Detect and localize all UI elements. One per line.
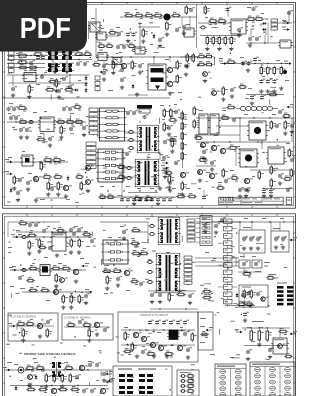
resistor R714 bbox=[69, 373, 75, 383]
capacitor C126 bbox=[36, 55, 42, 60]
wire net IC201 input bbox=[198, 22, 231, 24]
resistor R618 bbox=[112, 268, 122, 273]
ground bbox=[56, 192, 60, 196]
capacitor C309 bbox=[132, 110, 138, 115]
wire net right edge drop bbox=[291, 118, 293, 142]
capacitor C110 bbox=[29, 60, 35, 65]
resistor R711 bbox=[45, 373, 51, 383]
capacitor C308 bbox=[126, 110, 132, 115]
resistor R212 bbox=[260, 66, 266, 76]
transistor Q601 bbox=[73, 269, 82, 274]
transformer T102 flyback bbox=[135, 159, 160, 187]
wire section divider vertical bbox=[196, 4, 198, 48]
resistor R411 bbox=[187, 193, 197, 198]
wire p2 net C bbox=[22, 291, 90, 293]
resistor R617 bbox=[102, 268, 112, 273]
ground bbox=[257, 342, 261, 346]
title block field text bbox=[220, 198, 280, 203]
wire U702 feed bbox=[279, 328, 281, 338]
connector J601 bbox=[187, 219, 195, 243]
capacitor C315 bbox=[16, 190, 22, 195]
resistor R311 bbox=[47, 181, 53, 191]
inductor L607 bbox=[146, 280, 153, 283]
capacitor C707 bbox=[90, 388, 96, 393]
ground bbox=[150, 300, 154, 304]
connector J103 bbox=[95, 76, 100, 92]
transistor Q302 bbox=[63, 185, 72, 190]
net label AC2 bbox=[105, 379, 113, 383]
resistor R402 bbox=[181, 121, 187, 131]
resistor R422b bbox=[170, 108, 176, 118]
inductor L201 bbox=[199, 26, 206, 29]
page 2 border frame inner bbox=[5, 216, 294, 396]
transistor Q707 bbox=[141, 336, 150, 341]
IC U301 audio amp bbox=[38, 117, 56, 132]
resistor R730 bbox=[187, 373, 195, 380]
capacitor C205 bbox=[241, 61, 247, 66]
ground bbox=[283, 131, 287, 135]
wire module A out bbox=[243, 253, 245, 258]
IC U702 bbox=[271, 338, 289, 354]
resistor R420 bbox=[222, 168, 228, 178]
resistor R207 bbox=[212, 36, 218, 46]
resistor R710 bbox=[64, 365, 74, 370]
resistor R405 bbox=[181, 151, 187, 161]
resistor R601 bbox=[27, 232, 37, 237]
resistor R720 bbox=[131, 342, 137, 352]
page 1 border frame outer bbox=[3, 2, 296, 208]
resistor R717 bbox=[58, 386, 68, 391]
capacitor C405 bbox=[275, 123, 281, 128]
capacitor C622 bbox=[34, 222, 40, 227]
ground bbox=[37, 249, 41, 253]
resistor R107 bbox=[108, 29, 117, 34]
page 1 border frame inner bbox=[5, 4, 294, 205]
ground bbox=[248, 303, 252, 307]
ground bbox=[242, 300, 246, 304]
resistor R317 bbox=[80, 181, 86, 191]
net label HT bbox=[289, 331, 297, 335]
ground bbox=[217, 47, 221, 51]
ground bbox=[167, 185, 171, 189]
ground bbox=[278, 181, 282, 185]
ground bbox=[158, 186, 162, 190]
transistor Q303 bbox=[86, 166, 94, 171]
transistor Q202 dark dot bbox=[283, 70, 287, 74]
resistor R622 bbox=[176, 291, 186, 296]
resistor R421 bbox=[258, 170, 264, 180]
ground bbox=[221, 97, 225, 101]
capacitor C418 bbox=[238, 187, 244, 192]
resistor R738 bbox=[200, 331, 209, 338]
ground bbox=[256, 246, 260, 250]
ground bbox=[135, 92, 139, 96]
wire T602 to module A1 bbox=[195, 257, 239, 259]
title block frame bbox=[219, 197, 283, 204]
module box STAND-BY frame bbox=[118, 312, 198, 362]
ground bbox=[269, 194, 273, 198]
ground bbox=[105, 286, 109, 290]
diode D302 bbox=[10, 188, 13, 193]
capacitor C601 bbox=[42, 228, 48, 233]
resistor R418 bbox=[288, 148, 294, 158]
ground bbox=[82, 133, 86, 137]
connector J603 block bbox=[196, 216, 212, 246]
capacitor C703 bbox=[103, 327, 109, 332]
wire primary bus bbox=[96, 56, 196, 58]
IC U401 bbox=[197, 114, 210, 134]
wire net T101 to T102 bbox=[159, 152, 161, 161]
capacitor C613 bbox=[242, 236, 248, 242]
resistor R436 bbox=[193, 119, 199, 129]
resistor R716 bbox=[38, 386, 48, 393]
inductor L603 bbox=[148, 224, 155, 227]
table PLASTIC SIDE pinout frame bbox=[250, 362, 295, 396]
transistor Q602 bbox=[53, 289, 62, 294]
transistor Q702 bbox=[94, 322, 103, 327]
table AUDIO pinout pin ovals bbox=[220, 368, 242, 396]
ground bbox=[168, 188, 172, 192]
resistor R101 bbox=[124, 12, 134, 17]
wire net array to T101 a bbox=[124, 132, 139, 134]
wire net above title bbox=[262, 188, 293, 190]
ground bbox=[279, 86, 283, 90]
ground bbox=[188, 301, 192, 305]
capacitor C501 bbox=[126, 197, 132, 202]
module box PLUG RELAY frame bbox=[8, 313, 58, 341]
capacitor C409 bbox=[286, 187, 292, 192]
module box AC DETECT frame bbox=[62, 314, 113, 340]
ground bbox=[65, 70, 69, 74]
wire net T601 lower bbox=[147, 232, 149, 243]
wire bb net A bbox=[242, 327, 290, 329]
transistor Q407 bbox=[244, 178, 253, 183]
ground bbox=[168, 91, 172, 95]
resistor R702 bbox=[25, 321, 35, 326]
ground bbox=[16, 198, 20, 202]
resistor R217 bbox=[222, 86, 228, 96]
module box M602 frame bbox=[271, 231, 289, 252]
transistor Q703 bbox=[79, 365, 88, 370]
capacitor C509 bbox=[202, 195, 208, 200]
resistor R735 bbox=[123, 348, 132, 355]
resistor R414 bbox=[220, 115, 230, 120]
svg-text:PDF: PDF bbox=[20, 13, 71, 45]
ground bbox=[249, 246, 253, 250]
ground bbox=[19, 135, 23, 139]
wire net array to T102 b bbox=[122, 176, 137, 178]
ground bbox=[21, 338, 25, 342]
capacitor C201 bbox=[226, 7, 232, 12]
capacitor C312 bbox=[48, 136, 54, 141]
ground bbox=[84, 301, 88, 305]
net label PROT bbox=[107, 378, 115, 382]
transformer L105 line filter bbox=[60, 51, 75, 72]
resistor R742 bbox=[245, 301, 254, 308]
resistor R609 bbox=[55, 273, 61, 283]
capacitor C115 bbox=[102, 63, 108, 68]
resistor R433 bbox=[98, 194, 107, 199]
ground bbox=[27, 95, 31, 99]
resistor R117 bbox=[112, 60, 118, 70]
resistor R424b bbox=[171, 138, 177, 148]
table PLASTIC SIDE pinout title bbox=[252, 364, 280, 365]
transistor Q701 bbox=[37, 323, 46, 328]
ground bbox=[180, 192, 184, 196]
wire primary bus ext bbox=[180, 56, 196, 58]
IC U105 bbox=[111, 58, 123, 65]
net label HEATER bbox=[286, 104, 294, 108]
capacitor C301 bbox=[9, 115, 15, 120]
capacitor C131 bbox=[122, 44, 128, 49]
ground bbox=[57, 95, 61, 99]
wire net E link bbox=[236, 261, 239, 263]
wire net cap drop bbox=[203, 190, 205, 196]
transistor Q403 bbox=[211, 145, 220, 150]
wire net D120 feed bbox=[138, 26, 160, 28]
ground bbox=[44, 384, 48, 388]
wire net lower link bbox=[128, 94, 148, 96]
transistor Q604 bbox=[261, 297, 269, 301]
ground bbox=[165, 354, 169, 358]
resistor R205 bbox=[254, 16, 264, 21]
resistor R211c bbox=[197, 61, 206, 66]
wire module A feed bbox=[239, 222, 241, 230]
wire net aux rail bbox=[246, 42, 278, 44]
wire net riser left of centre bbox=[95, 8, 97, 57]
resistor R208 bbox=[218, 36, 224, 46]
diode D201 bbox=[262, 22, 267, 25]
ground bbox=[268, 355, 272, 359]
wire decoupling rail bbox=[100, 196, 176, 198]
net label AC1 bbox=[105, 371, 113, 375]
diode D122 bbox=[132, 84, 135, 89]
wire net drive low bbox=[196, 134, 240, 136]
resistor R709 bbox=[35, 365, 45, 372]
capacitor C417 bbox=[202, 149, 208, 154]
capacitor C311 bbox=[12, 106, 18, 111]
capacitor C725 bbox=[268, 347, 274, 352]
capacitor C114 bbox=[68, 84, 74, 89]
wire net U104 drop bbox=[103, 61, 105, 70]
transistor Q712 bbox=[28, 375, 36, 380]
ground bbox=[27, 251, 31, 255]
ground bbox=[102, 77, 106, 81]
diode D703 bbox=[236, 293, 239, 298]
wire p2 sec rail bbox=[194, 261, 238, 263]
resistor R312 bbox=[57, 181, 63, 191]
capacitor C413 bbox=[163, 139, 169, 144]
resistor R216 bbox=[268, 91, 278, 96]
resistor R133 bbox=[192, 53, 198, 63]
resistor R434 bbox=[106, 194, 115, 199]
wire link down bbox=[235, 258, 237, 266]
inductor L306 bbox=[125, 176, 132, 179]
wire module B feed bbox=[279, 222, 281, 231]
wire mains pair lower A bbox=[7, 63, 45, 65]
capacitor C710 bbox=[148, 320, 154, 325]
page 2 border tick marks bbox=[3, 214, 296, 383]
resistor R701 bbox=[16, 321, 26, 326]
inductor L301 bbox=[27, 120, 34, 123]
ground bbox=[34, 198, 38, 202]
resistor R415 bbox=[270, 120, 276, 130]
capacitor C714 bbox=[176, 320, 182, 325]
resistor R305 bbox=[60, 125, 66, 135]
resistor R620 bbox=[130, 278, 139, 285]
ground bbox=[237, 33, 241, 37]
ground bbox=[274, 245, 278, 249]
net label AC DET bbox=[99, 69, 107, 73]
wire mains live bbox=[7, 55, 92, 57]
PDF badge bbox=[0, 0, 87, 52]
resistor R741 bbox=[237, 301, 246, 308]
transformer T602 bbox=[156, 253, 181, 293]
resistor R631 bbox=[28, 240, 34, 250]
resistor R608 bbox=[61, 265, 71, 272]
resistor R435 bbox=[193, 106, 199, 116]
resistor R316 bbox=[75, 174, 84, 179]
capacitor C302 bbox=[14, 115, 20, 120]
ground bbox=[38, 334, 42, 338]
capacitor C606 bbox=[84, 293, 90, 298]
resistor R424 bbox=[230, 175, 239, 182]
transistor Q710 bbox=[177, 345, 186, 350]
net label S2 bbox=[161, 165, 169, 169]
title block dividers bbox=[219, 197, 283, 204]
capacitor C411 bbox=[269, 189, 275, 194]
capacitor C138 bbox=[68, 63, 74, 68]
wire detect net bbox=[64, 326, 110, 328]
resistor R301 bbox=[18, 119, 28, 124]
capacitor C607 bbox=[203, 222, 209, 227]
wire net D202 drop bbox=[264, 35, 266, 43]
IC U403 driver bbox=[247, 121, 268, 140]
resistor R634 bbox=[266, 274, 275, 279]
transistor Q201 bbox=[203, 72, 211, 77]
capacitor C620 bbox=[256, 291, 262, 296]
inductor L601 bbox=[20, 235, 27, 238]
resistor R410 bbox=[176, 193, 186, 198]
transistor Q409 bbox=[201, 143, 209, 148]
IC U601 regulator bbox=[50, 233, 68, 251]
resistor R427 bbox=[144, 195, 154, 200]
resistor R607 bbox=[51, 265, 61, 270]
resistor R706 bbox=[82, 322, 92, 329]
diode D110 bbox=[85, 76, 88, 81]
resistor R126 bbox=[28, 64, 38, 71]
transistor Q102 bbox=[167, 67, 176, 72]
capacitor C706 bbox=[82, 388, 88, 393]
wire net C210 drop bbox=[250, 30, 252, 36]
resistor R123 bbox=[185, 5, 191, 15]
IC U303 resistor network bbox=[98, 108, 127, 141]
transistor Q101 bbox=[121, 63, 130, 68]
resistor R740 bbox=[202, 294, 212, 301]
net label OUT2 bbox=[282, 27, 290, 31]
capacitor C407 bbox=[278, 173, 284, 178]
connector J104 dark header bbox=[137, 105, 152, 109]
inductor L713 bbox=[180, 390, 187, 393]
table AUDIO pinout title bbox=[217, 366, 235, 367]
wire net left column bbox=[121, 150, 123, 200]
capacitor C410 bbox=[262, 189, 268, 194]
wire net snubber bbox=[69, 75, 71, 84]
wire net output bbox=[278, 22, 293, 24]
wire module B drop bbox=[270, 222, 272, 231]
resistor R114 bbox=[28, 84, 34, 94]
wire net T601 in bbox=[131, 231, 148, 233]
ground bbox=[12, 186, 16, 190]
capacitor C102 bbox=[182, 24, 188, 29]
capacitor C728 bbox=[18, 275, 24, 280]
capacitor C502 bbox=[132, 197, 138, 202]
resistor R128 bbox=[64, 86, 74, 93]
capacitor C203 bbox=[287, 10, 293, 15]
capacitor C711 bbox=[186, 347, 192, 352]
capacitor C101 bbox=[175, 27, 181, 32]
resistor R416 bbox=[284, 120, 290, 130]
ground bbox=[259, 89, 263, 93]
inductor L303 bbox=[127, 138, 134, 141]
ground bbox=[186, 355, 190, 359]
transistor Q704 bbox=[51, 388, 60, 393]
wire mains pair lower B bbox=[7, 67, 45, 69]
wire net drive B bbox=[196, 141, 290, 143]
capacitor C122 bbox=[126, 32, 132, 37]
wire net array to T101 b bbox=[124, 140, 139, 142]
wire control net bbox=[7, 161, 68, 163]
ground bbox=[182, 31, 186, 35]
ground bbox=[214, 230, 218, 234]
resistor R703 bbox=[22, 328, 28, 338]
ground bbox=[170, 149, 174, 153]
wire net U202 loop bbox=[214, 58, 216, 66]
resistor R441 bbox=[48, 78, 57, 85]
connector J302 bbox=[86, 142, 96, 170]
resistor R625 bbox=[250, 289, 256, 299]
resistor R203 bbox=[217, 18, 227, 25]
resistor R613 bbox=[70, 294, 76, 304]
wire net U102 link bbox=[106, 35, 119, 37]
resistor R104 bbox=[153, 12, 163, 19]
resistor R202 bbox=[208, 18, 218, 25]
wire net top drop B bbox=[227, 8, 229, 17]
ground bbox=[165, 32, 169, 36]
resistor R712 bbox=[53, 373, 59, 383]
resistor R426 bbox=[133, 195, 143, 200]
resistor R614 bbox=[78, 294, 84, 304]
resistor R606 bbox=[28, 265, 38, 270]
resistor R211 bbox=[226, 59, 236, 64]
capacitor C621 bbox=[28, 222, 34, 227]
wire audio net A bbox=[7, 121, 86, 123]
resistor R403 bbox=[181, 131, 187, 141]
inductor L302 bbox=[127, 130, 134, 133]
ground bbox=[60, 384, 64, 388]
capacitor C127 bbox=[41, 55, 47, 60]
module box M601 frame bbox=[239, 230, 265, 253]
IC U104 bbox=[96, 53, 109, 61]
inductor L602 bbox=[20, 268, 27, 271]
wire p2 net A upper bbox=[16, 231, 88, 233]
ground bbox=[203, 79, 207, 83]
resistor R113 bbox=[83, 51, 92, 56]
capacitor C506 bbox=[156, 197, 162, 202]
resistor R120 bbox=[176, 74, 182, 84]
ground bbox=[205, 47, 209, 51]
varistor pads VR701 bbox=[119, 374, 153, 394]
